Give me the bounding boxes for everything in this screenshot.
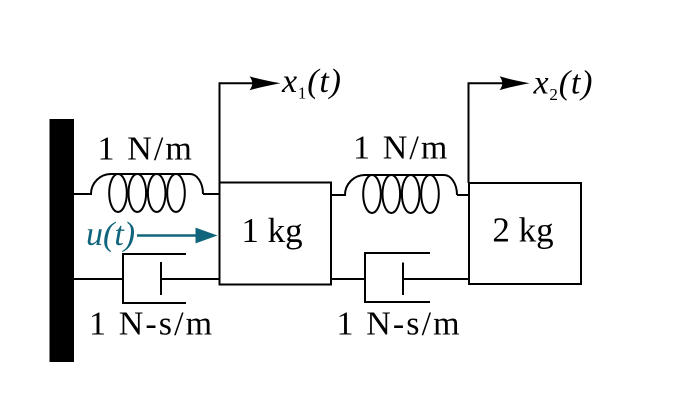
wire mass M1 to damper B2 (331, 278, 366, 280)
wire damper B2 piston rod to mass M2 (403, 278, 470, 280)
damper B2 cylinder (365, 253, 430, 302)
spring K1 (91, 174, 203, 212)
svg-text:1 N/m: 1 N/m (353, 130, 449, 167)
svg-text:x1(t): x1(t) (281, 63, 342, 103)
svg-text:1 N-s/m: 1 N-s/m (89, 306, 214, 343)
wire spring K1 to mass M1 (203, 193, 220, 195)
label x1(t) (281, 63, 342, 103)
displacement arrow x2 (469, 76, 530, 183)
value label 1 N/m (left spring) (98, 131, 194, 168)
damper B1 cylinder (123, 254, 186, 303)
damper B2 piston (402, 263, 404, 296)
value label 1 N-s/m (left damper) (89, 306, 214, 343)
label 1 kg (241, 211, 302, 250)
wire wall to damper B1 (74, 278, 124, 280)
wall (50, 119, 75, 362)
label x2(t) (533, 65, 594, 105)
label 2 kg (492, 211, 553, 250)
svg-text:1 N/m: 1 N/m (98, 131, 194, 168)
svg-text:x2(t): x2(t) (533, 65, 594, 105)
spring K2 (345, 175, 457, 213)
force arrow u(t) (137, 228, 218, 244)
value label 1 N/m (middle spring) (353, 130, 449, 167)
mass M1 (1 kg) (220, 183, 332, 285)
svg-text:u(t): u(t) (86, 216, 135, 253)
label u(t) (86, 216, 135, 253)
svg-text:1 kg: 1 kg (241, 211, 302, 250)
damper B1 piston (160, 262, 162, 295)
value label 1 N-s/m (middle damper) (337, 306, 462, 343)
svg-text:1 N-s/m: 1 N-s/m (337, 306, 462, 343)
svg-text:2 kg: 2 kg (492, 211, 553, 250)
displacement arrow x1 (220, 76, 281, 183)
wire damper B1 piston rod to mass M1 (161, 278, 220, 280)
wire spring K2 to mass M2 (457, 194, 470, 196)
mass M2 (2 kg) (469, 183, 581, 284)
wire mass M1 to spring K2 (331, 194, 346, 196)
wire wall to spring K1 (74, 193, 92, 195)
